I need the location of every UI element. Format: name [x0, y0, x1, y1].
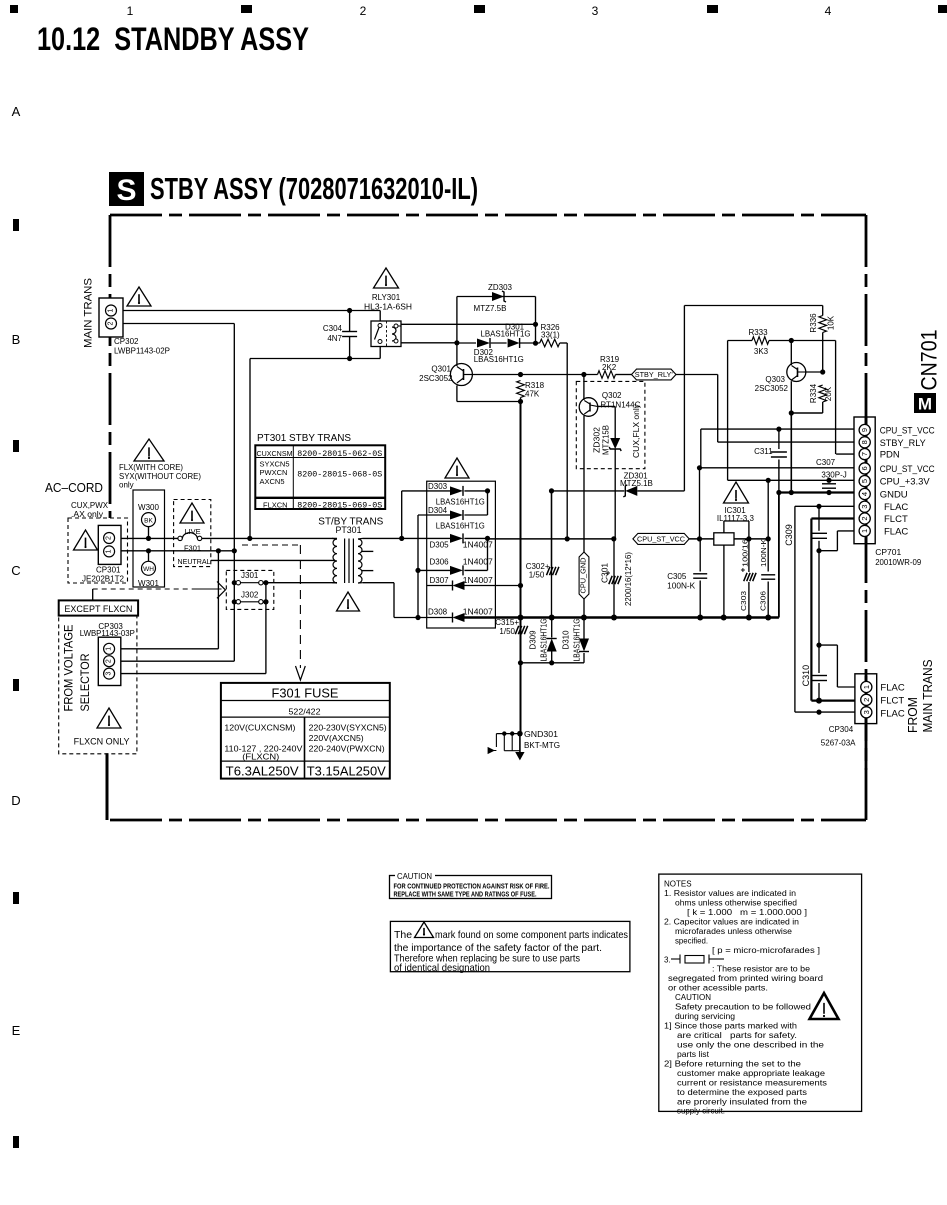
svg-text:D310: D310 — [562, 630, 571, 650]
svg-text:CPU_ST_VCC: CPU_ST_VCC — [637, 537, 685, 544]
svg-text:FLAC: FLAC — [884, 502, 908, 513]
svg-text:D303: D303 — [428, 482, 448, 491]
svg-text:GNDU: GNDU — [880, 490, 908, 501]
svg-text:customer make appropriate l: customer make appropriate leakage — [677, 1069, 826, 1078]
svg-text:47K: 47K — [525, 390, 540, 399]
svg-text:are prorerly insulated from: are prorerly insulated from the — [677, 1098, 808, 1107]
svg-text:B: B — [12, 332, 21, 347]
svg-text:CUX,PWX: CUX,PWX — [71, 501, 109, 510]
svg-text:The: The — [394, 929, 412, 941]
svg-text:F301: F301 — [184, 544, 201, 553]
svg-text:100N-K: 100N-K — [667, 582, 696, 591]
svg-text:5267-03A: 5267-03A — [821, 739, 856, 748]
svg-text:to determine the exposed p: to determine the exposed parts — [677, 1088, 807, 1097]
svg-text:of identical designation: of identical designation — [394, 962, 490, 974]
svg-text:20010WR-09: 20010WR-09 — [875, 557, 921, 567]
svg-text:NEUTRAL: NEUTRAL — [178, 557, 211, 566]
svg-text:supply circuit.: supply circuit. — [677, 1107, 725, 1116]
svg-text:1N4007: 1N4007 — [463, 541, 494, 550]
svg-text:1N4007: 1N4007 — [463, 576, 494, 585]
svg-text:100/16: 100/16 — [741, 539, 750, 567]
svg-text:STBY ASSY (7028071632010-IL): STBY ASSY (7028071632010-IL) — [150, 171, 478, 206]
svg-text:T3.15AL250V: T3.15AL250V — [307, 763, 386, 778]
svg-text:CP701: CP701 — [875, 547, 901, 557]
svg-text:MAIN TRANS: MAIN TRANS — [921, 660, 935, 733]
svg-text:2: 2 — [106, 536, 113, 540]
svg-text:C315+: C315+ — [495, 618, 519, 627]
svg-text:LBAS16HT1G: LBAS16HT1G — [474, 355, 524, 364]
svg-text:D309: D309 — [529, 630, 538, 650]
svg-text:W301: W301 — [138, 579, 159, 588]
svg-text:1N4007: 1N4007 — [463, 558, 494, 567]
svg-text:C309: C309 — [784, 524, 794, 546]
svg-text:CN701: CN701 — [917, 330, 942, 391]
svg-text:PDN: PDN — [880, 450, 900, 461]
svg-text:CUXCNSM: CUXCNSM — [257, 449, 293, 458]
svg-text:F301 FUSE: F301 FUSE — [272, 687, 339, 701]
svg-text:HL3-1A-6SH: HL3-1A-6SH — [364, 303, 412, 312]
svg-text:: These resistor are to be: : These resistor are to be — [712, 965, 811, 974]
svg-text:10.12 STANDBY ASSY: 10.12 STANDBY ASSY — [37, 21, 309, 57]
svg-text:EXCEPT FLXCN: EXCEPT FLXCN — [64, 604, 132, 615]
svg-text:1/50: 1/50 — [499, 627, 515, 636]
svg-text:FLX(WITH CORE): FLX(WITH CORE) — [119, 463, 183, 472]
svg-text:Safety precaution to be fo: Safety precaution to be followed — [675, 1003, 811, 1012]
svg-text:STBY_RLY': STBY_RLY' — [635, 372, 673, 379]
svg-text:LBAS16HT1G: LBAS16HT1G — [573, 619, 582, 662]
svg-text:ohms unless otherwise specifie: ohms unless otherwise specified — [675, 899, 797, 908]
svg-text:1: 1 — [106, 549, 113, 553]
svg-text:120V(CUXCNSM): 120V(CUXCNSM) — [224, 723, 295, 733]
svg-text:C301: C301 — [601, 562, 610, 583]
svg-text:PT301 STBY TRANS: PT301 STBY TRANS — [257, 433, 351, 444]
svg-text:1: 1 — [108, 308, 115, 312]
svg-text:[ k = 1.000 m = 1.000.000 ]: [ k = 1.000 m = 1.000.000 ] — [687, 908, 807, 917]
svg-text:3: 3 — [860, 505, 869, 509]
svg-text:SELECTOR: SELECTOR — [78, 653, 92, 711]
svg-text:D: D — [11, 793, 20, 808]
svg-text:FLAC: FLAC — [880, 709, 904, 720]
svg-text:[ p = micro-microfarades ]: [ p = micro-microfarades ] — [712, 946, 820, 955]
svg-text:MTZ7.5B: MTZ7.5B — [474, 304, 507, 313]
svg-text:522/422: 522/422 — [289, 708, 322, 717]
svg-text:S: S — [116, 174, 136, 207]
svg-text:STBY_RLY: STBY_RLY — [880, 438, 927, 449]
svg-text:20K: 20K — [824, 386, 833, 401]
svg-text:W300: W300 — [138, 503, 159, 512]
svg-text:only: only — [119, 481, 134, 490]
svg-text:2: 2 — [360, 4, 367, 18]
svg-text:1: 1 — [106, 647, 113, 651]
svg-text:E: E — [12, 1023, 21, 1038]
svg-text:C305: C305 — [667, 572, 687, 581]
svg-text:2. Capecitor values are indica: 2. Capecitor values are indicated in — [664, 918, 799, 927]
svg-text:FROM: FROM — [906, 697, 920, 733]
svg-text:JE202B1T2: JE202B1T2 — [82, 575, 125, 584]
svg-text:3.: 3. — [664, 956, 671, 965]
svg-text:PT301: PT301 — [336, 525, 362, 535]
svg-text:AC–CORD: AC–CORD — [45, 480, 103, 495]
svg-text:R336: R336 — [809, 313, 818, 333]
svg-text:CPU_ST_VCC: CPU_ST_VCC — [880, 426, 935, 437]
svg-text:5: 5 — [860, 479, 869, 483]
svg-text:220V(AXCN5): 220V(AXCN5) — [309, 733, 364, 743]
svg-text:FLAC: FLAC — [880, 683, 904, 694]
svg-text:AXCN5: AXCN5 — [260, 477, 285, 486]
svg-text:current or resistance measu: current or resistance measurements — [677, 1079, 827, 1088]
svg-text:7: 7 — [860, 452, 869, 456]
svg-text:microfarades unless otherwise: microfarades unless otherwise — [675, 927, 793, 936]
svg-text:MAIN TRANS: MAIN TRANS — [83, 278, 95, 348]
svg-text:9: 9 — [860, 428, 869, 432]
svg-text:2SC3052: 2SC3052 — [419, 374, 453, 383]
svg-text:D304: D304 — [428, 506, 448, 515]
svg-text:R334: R334 — [809, 383, 818, 403]
svg-text:MTZ15B: MTZ15B — [602, 425, 611, 455]
svg-text:FLCT: FLCT — [884, 514, 908, 525]
svg-text:330P-J: 330P-J — [821, 471, 846, 480]
svg-text:LIVE: LIVE — [184, 527, 200, 536]
svg-text:during servicing: during servicing — [675, 1012, 735, 1021]
svg-text:A: A — [12, 104, 21, 119]
svg-text:8200-28015-062-0S: 8200-28015-062-0S — [297, 450, 382, 459]
svg-text:Q302: Q302 — [602, 391, 622, 400]
svg-text:ZD303: ZD303 — [488, 283, 513, 292]
svg-text:FLAC: FLAC — [884, 526, 908, 537]
svg-text:1: 1 — [860, 529, 869, 533]
svg-text:CP302: CP302 — [114, 337, 139, 346]
svg-text:Q303: Q303 — [765, 375, 785, 384]
svg-text:use only the one described: use only the one described in the — [677, 1041, 825, 1050]
svg-text:LBAS16HT1G: LBAS16HT1G — [540, 619, 549, 662]
svg-text:specified.: specified. — [675, 937, 708, 946]
svg-text:GND301: GND301 — [524, 730, 559, 739]
svg-text:T6.3AL250V: T6.3AL250V — [226, 763, 299, 778]
svg-text:2: 2 — [106, 659, 113, 663]
svg-text:4N7: 4N7 — [327, 334, 342, 343]
svg-text:D306: D306 — [430, 558, 450, 567]
svg-text:WH: WH — [143, 566, 154, 573]
svg-text:3: 3 — [592, 4, 599, 18]
svg-text:(FLXCN): (FLXCN) — [242, 752, 279, 762]
svg-text:C311: C311 — [754, 447, 773, 456]
svg-text:BK: BK — [144, 517, 153, 524]
svg-text:LBAS16HT1G: LBAS16HT1G — [436, 522, 485, 531]
svg-text:D305: D305 — [430, 541, 450, 550]
svg-text:C310: C310 — [801, 665, 811, 687]
svg-text:2200/16(12*16): 2200/16(12*16) — [624, 552, 633, 606]
svg-text:J301: J301 — [241, 571, 259, 580]
svg-text:4: 4 — [860, 492, 869, 496]
svg-text:6: 6 — [860, 466, 869, 470]
svg-text:3: 3 — [862, 710, 871, 714]
svg-text:segregated from printed wir: segregated from printed wiring board — [668, 974, 823, 983]
svg-text:1N4007: 1N4007 — [463, 608, 494, 617]
svg-text:parts list: parts list — [677, 1050, 710, 1059]
svg-text:mark found on some component p: mark found on some component parts indic… — [435, 929, 628, 941]
svg-text:2: 2 — [860, 516, 869, 520]
svg-text:R333: R333 — [748, 328, 768, 337]
svg-text:PWXCN: PWXCN — [260, 468, 288, 477]
svg-text:RLY301: RLY301 — [372, 293, 401, 302]
svg-text:1: 1 — [127, 4, 134, 18]
svg-text:C: C — [11, 563, 20, 578]
svg-text:FROM VOLTAGE: FROM VOLTAGE — [62, 625, 76, 712]
svg-text:220-230V(SYXCN5): 220-230V(SYXCN5) — [309, 723, 387, 733]
svg-text:Q301: Q301 — [431, 365, 451, 374]
svg-text:CAUTION: CAUTION — [397, 871, 432, 881]
svg-text:LWBP1143-02P: LWBP1143-02P — [114, 347, 170, 356]
svg-text:FLCT: FLCT — [880, 696, 904, 707]
svg-text:M: M — [918, 395, 932, 414]
svg-text:1/50: 1/50 — [529, 571, 545, 580]
svg-text:are critical parts for saf: are critical parts for safety. — [677, 1031, 797, 1040]
svg-text:NOTES: NOTES — [664, 880, 692, 889]
svg-text:or other acessible parts.: or other acessible parts. — [668, 984, 768, 993]
svg-text:C306: C306 — [759, 591, 768, 611]
svg-text:3: 3 — [106, 672, 113, 676]
svg-text:ZD302: ZD302 — [593, 426, 602, 453]
svg-text:33(1): 33(1) — [541, 331, 560, 340]
svg-text:1] Since those parts marked: 1] Since those parts marked with — [664, 1022, 797, 1031]
svg-text:220-240V(PWXCN): 220-240V(PWXCN) — [309, 744, 385, 754]
svg-text:2: 2 — [108, 321, 115, 325]
svg-text:1. Resistor values are indicat: 1. Resistor values are indicated in — [664, 889, 796, 898]
svg-text:CPU_ST_VCC: CPU_ST_VCC — [880, 464, 935, 475]
svg-text:FLXCN ONLY: FLXCN ONLY — [74, 737, 130, 747]
svg-text:CPU_GND: CPU_GND — [581, 558, 588, 594]
svg-text:LBAS16HT1G: LBAS16HT1G — [481, 330, 531, 339]
svg-text:CP304: CP304 — [829, 725, 854, 734]
svg-text:2K2: 2K2 — [602, 363, 617, 372]
svg-text:CAUTION: CAUTION — [675, 993, 711, 1002]
svg-text:SYXCN5: SYXCN5 — [260, 459, 290, 468]
svg-text:100N-K: 100N-K — [759, 539, 768, 567]
svg-text:8200-28015-069-0S: 8200-28015-069-0S — [297, 502, 382, 511]
svg-text:2SC3052: 2SC3052 — [755, 384, 789, 393]
svg-text:J302: J302 — [241, 590, 259, 599]
svg-text:CPU_+3.3V: CPU_+3.3V — [880, 477, 931, 488]
svg-text:FLXCN: FLXCN — [263, 500, 288, 509]
svg-text:BKT-MTG: BKT-MTG — [524, 741, 560, 750]
svg-text:4: 4 — [825, 4, 832, 18]
svg-text:1: 1 — [862, 685, 871, 689]
svg-text:C303: C303 — [739, 591, 748, 611]
svg-text:CUX,FLX only: CUX,FLX only — [632, 404, 641, 458]
svg-text:10K: 10K — [827, 315, 836, 330]
svg-text:3K3: 3K3 — [754, 347, 769, 356]
svg-text:2: 2 — [862, 698, 871, 702]
svg-text:D308: D308 — [428, 608, 448, 617]
svg-text:8: 8 — [860, 440, 869, 444]
svg-text:REPLACE WITH SAME TYPE AND RAT: REPLACE WITH SAME TYPE AND RATINGS OF FU… — [394, 889, 537, 898]
svg-text:2] Before returning the set: 2] Before returning the set to the — [664, 1060, 802, 1069]
svg-text:D307: D307 — [430, 576, 450, 585]
svg-text:8200-28015-068-0S: 8200-28015-068-0S — [297, 470, 382, 479]
svg-text:CP301: CP301 — [96, 566, 121, 575]
svg-text:C307: C307 — [816, 458, 836, 467]
svg-text:C304: C304 — [323, 324, 343, 333]
